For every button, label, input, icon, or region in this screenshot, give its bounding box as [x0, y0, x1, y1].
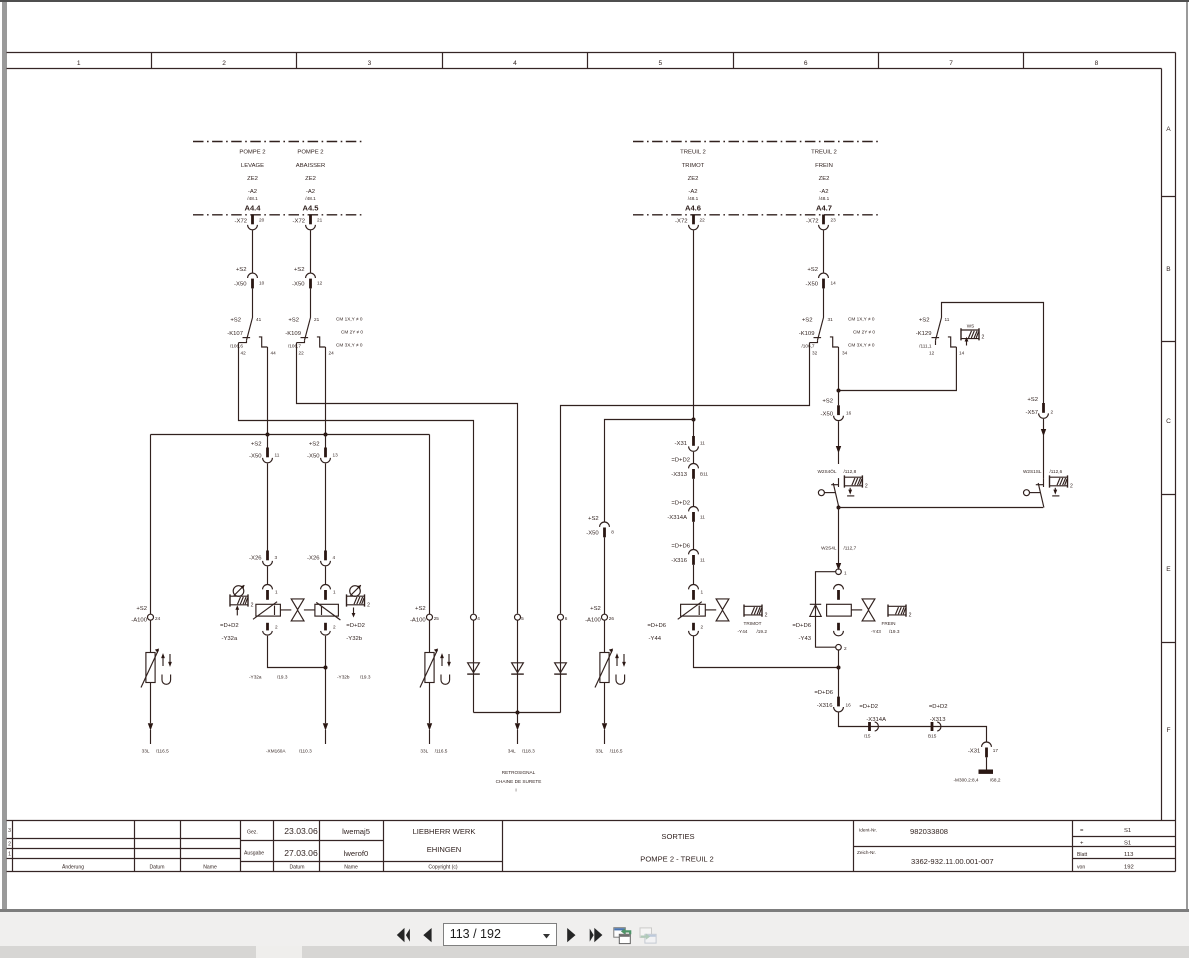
svg-text:33L: 33L: [595, 749, 603, 754]
svg-text:-A100: -A100: [585, 618, 601, 624]
svg-text:-X72: -X72: [806, 219, 818, 225]
svg-text:6: 6: [565, 616, 568, 621]
svg-text:=D+D2: =D+D2: [671, 458, 690, 464]
diode across Y43: [810, 572, 836, 648]
valve Y44 pin 2 connector: [689, 623, 704, 636]
manual override Y32b: [347, 585, 371, 617]
arrow W2S4L: [836, 563, 841, 570]
supply bus left: [151, 434, 430, 436]
svg-text:5: 5: [658, 60, 662, 67]
svg-text:TREUIL 2: TREUIL 2: [680, 150, 706, 156]
svg-text:TRIMOT: TRIMOT: [682, 163, 705, 169]
wire K107-42 to diode1: [239, 343, 474, 614]
svg-text:2: 2: [844, 646, 847, 651]
wire X26-4 to Y32b: [325, 566, 327, 584]
connector X26 pin 3: [249, 551, 277, 566]
valve Y43 pin 2 connector: [834, 623, 844, 636]
svg-text:-A100: -A100: [410, 618, 426, 624]
connector X72 pin 20: [235, 215, 265, 230]
connector X72 pin 21: [293, 215, 323, 230]
coil W2S4OL: [844, 475, 868, 495]
wire X50-10 to K107: [252, 288, 254, 317]
junction X50-16 branch: [837, 389, 841, 393]
wire X314A to X316: [693, 522, 695, 549]
svg-text:Änderung: Änderung: [62, 864, 84, 871]
svg-text:/19.2: /19.2: [757, 629, 768, 634]
svg-text:12: 12: [929, 351, 935, 356]
svg-text:-X314A: -X314A: [667, 515, 687, 521]
wire A4.6 node down: [693, 420, 695, 437]
svg-text:-K109: -K109: [799, 331, 815, 337]
header text column A4.7: [811, 150, 837, 213]
svg-text:A4.5: A4.5: [302, 204, 319, 213]
valve Y32b pin 2 connector: [321, 623, 336, 635]
interface dash-dot line lower right: [633, 214, 881, 216]
svg-text:-X26: -X26: [249, 556, 262, 562]
junction W2S4OL out: [837, 506, 841, 510]
wire X31-17 to ground: [986, 757, 988, 769]
relay contact K109b: [799, 317, 848, 356]
next page button: [567, 928, 575, 942]
svg-text:/19.3: /19.3: [889, 629, 900, 634]
connector X50 pin 14: [806, 267, 837, 288]
svg-text:+S2: +S2: [822, 399, 833, 405]
svg-text:Name: Name: [344, 865, 358, 871]
svg-text:31: 31: [828, 317, 834, 322]
svg-text:982033808: 982033808: [910, 827, 948, 836]
svg-text:ABAISSER: ABAISSER: [296, 163, 325, 169]
svg-text:A4.6: A4.6: [685, 204, 701, 213]
column numbers 1-8: [77, 60, 1099, 67]
wire Y32a-2 to XM160A node: [268, 636, 326, 668]
svg-text:1: 1: [8, 852, 11, 858]
sensor A100 pin 24: [131, 606, 172, 754]
wire K129 top feed: [942, 303, 1044, 404]
svg-text:-Y43: -Y43: [871, 629, 881, 634]
junction XM160A: [324, 666, 328, 670]
middle section row lines: [241, 841, 503, 862]
valve Y32b pin 1 connector: [321, 585, 336, 600]
svg-text:-X72: -X72: [235, 219, 247, 225]
svg-text:-K129: -K129: [916, 331, 932, 337]
label 34L /118.3: [508, 749, 535, 754]
label -XM160A /110.3: [266, 749, 312, 754]
svg-text:+S2: +S2: [136, 606, 147, 612]
svg-text:/106,6: /106,6: [230, 344, 243, 349]
svg-text:-A2: -A2: [306, 189, 315, 195]
svg-text:16: 16: [846, 703, 852, 708]
valve Y32a body: [253, 602, 280, 620]
svg-text:ZE2: ZE2: [819, 176, 830, 182]
svg-text:14: 14: [959, 351, 965, 356]
title block bottom border: [7, 871, 1176, 873]
svg-text:CM 2Y ≠ 0: CM 2Y ≠ 0: [341, 330, 363, 335]
svg-text:-X72: -X72: [293, 219, 305, 225]
svg-text:lwerof0: lwerof0: [344, 849, 368, 858]
svg-text:/48.1: /48.1: [305, 196, 316, 201]
hourglass valve Y44: [705, 599, 729, 621]
svg-text:3: 3: [368, 60, 372, 67]
svg-text:FREIN: FREIN: [881, 621, 895, 626]
svg-text:POMPE 2: POMPE 2: [239, 150, 265, 156]
hourglass valve Y43: [851, 599, 875, 621]
svg-text:/48.1: /48.1: [688, 196, 699, 201]
wire K107-44 down: [267, 347, 269, 435]
svg-text:14: 14: [831, 281, 837, 286]
svg-text:2: 2: [367, 603, 370, 609]
svg-text:+S2: +S2: [415, 606, 426, 612]
svg-text:/68,2: /68,2: [990, 778, 1001, 783]
svg-text:-X50: -X50: [821, 412, 834, 418]
svg-text:-X72: -X72: [675, 219, 687, 225]
svg-text:32: 32: [812, 351, 818, 356]
svg-text:23: 23: [831, 218, 837, 223]
svg-text:-X316: -X316: [817, 703, 833, 709]
svg-text:-K109: -K109: [285, 331, 301, 337]
node circle 2 below Y43: [836, 644, 847, 651]
column strip dividers: [152, 53, 1024, 69]
revision numbers: [8, 828, 11, 858]
svg-text:+S2: +S2: [802, 318, 813, 324]
svg-text:lwemaj5: lwemaj5: [342, 827, 370, 836]
header text column A4.6: [680, 150, 706, 213]
svg-text:-X31: -X31: [675, 441, 687, 447]
svg-text:WS: WS: [967, 324, 975, 329]
svg-text:7: 7: [949, 60, 953, 67]
svg-text:8: 8: [1095, 60, 1099, 67]
svg-text:FREIN: FREIN: [815, 163, 833, 169]
label =D+D6 -Y44: [647, 623, 666, 642]
Gez / Ausgabe labels: [244, 830, 264, 857]
svg-text:34L: 34L: [508, 749, 516, 754]
svg-text:A4.4: A4.4: [244, 204, 261, 213]
svg-text:4: 4: [513, 60, 517, 67]
connector X314A pin 11: [667, 501, 705, 522]
valve Y32a pin 2 connector: [263, 623, 278, 635]
svg-text:Datum: Datum: [289, 865, 304, 871]
svg-text:11: 11: [700, 515, 705, 520]
valve Y43 body: [827, 604, 852, 616]
svg-text:ZE2: ZE2: [247, 176, 258, 182]
junction diode bus: [516, 711, 520, 715]
svg-text:-X50: -X50: [586, 531, 599, 537]
relay contact K109a: [285, 317, 334, 356]
svg-text:/15: /15: [864, 734, 871, 739]
svg-text:21: 21: [314, 317, 320, 322]
wire X50-14 to K109b: [823, 288, 825, 317]
frame bottom border / title block top: [7, 820, 1176, 822]
svg-text:/19.3: /19.3: [277, 675, 288, 680]
svg-text:24: 24: [155, 616, 161, 621]
diode column 2 plug pin 5: [511, 614, 524, 712]
svg-text:-X316: -X316: [671, 558, 687, 564]
svg-text:=D+D6: =D+D6: [647, 623, 666, 629]
svg-text:113: 113: [1124, 852, 1134, 858]
svg-text:-X50: -X50: [292, 282, 305, 288]
svg-text:33L: 33L: [142, 749, 150, 754]
svg-text:26: 26: [609, 616, 615, 621]
svg-text:CM 1X,Y ≠ 0: CM 1X,Y ≠ 0: [336, 317, 363, 322]
svg-text:-X314A: -X314A: [866, 717, 886, 723]
coil FREIN: [871, 605, 912, 635]
svg-text:SORTIES: SORTIES: [661, 832, 694, 841]
svg-text:A4.7: A4.7: [816, 204, 832, 213]
svg-text:/111,1: /111,1: [919, 344, 932, 349]
wire X313 to X314A: [693, 479, 695, 506]
svg-text:/48.1: /48.1: [819, 196, 830, 201]
label retrosignal: [496, 770, 542, 793]
svg-text:TRIMOT: TRIMOT: [744, 621, 762, 626]
arrow XM160A output: [323, 723, 328, 744]
svg-text:-X26: -X26: [307, 556, 320, 562]
svg-text:+S2: +S2: [230, 318, 241, 324]
wire A4.5 X72 to X50: [310, 230, 312, 272]
connector X316 pin 11: [671, 544, 705, 565]
svg-text:CM 3X,Y ≠ 0: CM 3X,Y ≠ 0: [336, 343, 363, 348]
svg-text:42: 42: [241, 351, 247, 356]
svg-text:Name: Name: [203, 865, 217, 871]
svg-text:2: 2: [982, 335, 985, 341]
connector X31 pin 17: [968, 742, 999, 757]
wire A4.7 X72 to X50: [823, 230, 825, 272]
frame right inner border: [1161, 69, 1163, 821]
svg-text:/48.1: /48.1: [247, 196, 258, 201]
svg-text:-Y32a: -Y32a: [222, 636, 238, 642]
coil TRIMOT: [738, 605, 768, 635]
diode collector bus: [474, 712, 561, 714]
svg-text:/116.5: /116.5: [435, 749, 448, 754]
svg-text:33L: 33L: [420, 749, 428, 754]
svg-text:B: B: [1166, 266, 1171, 273]
label =D+D2 -Y32b: [346, 623, 365, 642]
svg-text:1: 1: [844, 571, 847, 576]
names: [342, 827, 370, 858]
svg-text:22: 22: [700, 218, 706, 223]
svg-text:-X50: -X50: [806, 282, 819, 288]
wire X50-8 to A100-26: [604, 537, 606, 614]
svg-text:von: von: [1077, 865, 1085, 871]
svg-text:3362-932.11.00.001-007: 3362-932.11.00.001-007: [911, 857, 994, 866]
CM note right pair: [848, 317, 875, 348]
svg-text:3: 3: [275, 555, 278, 560]
CM note left pair: [336, 317, 363, 348]
wire X31-11 to X313: [693, 452, 695, 463]
prev view icon: [614, 928, 631, 944]
label -Y32a /19.3: [249, 675, 288, 680]
connector X72 pin 23: [806, 215, 836, 230]
wire W2S4OL to W2S1SL: [839, 507, 1044, 509]
valve Y44 body: [678, 602, 706, 620]
svg-text:/110.3: /110.3: [299, 749, 312, 754]
svg-text:1: 1: [701, 590, 704, 595]
svg-text:11: 11: [700, 558, 705, 563]
svg-text:=: =: [1080, 828, 1084, 834]
svg-text:11: 11: [700, 441, 705, 446]
diode column 3 plug pin 6: [554, 614, 568, 712]
label =D+D6 -Y43: [792, 623, 811, 642]
svg-text:-X50: -X50: [234, 282, 247, 288]
row letter dividers: [1162, 197, 1176, 643]
wire branch to X50-8: [605, 420, 694, 522]
svg-text:2: 2: [865, 484, 868, 490]
svg-text:11: 11: [945, 317, 950, 322]
connector X50 pin 10: [234, 267, 265, 288]
svg-text:4: 4: [333, 555, 336, 560]
svg-text:17: 17: [993, 748, 999, 753]
svg-text:Ident-Nr.: Ident-Nr.: [859, 828, 877, 833]
svg-text:2: 2: [909, 613, 912, 619]
wire bus to A100-24: [150, 435, 152, 615]
svg-text:E: E: [1166, 566, 1171, 573]
svg-text:LEVAGE: LEVAGE: [241, 163, 264, 169]
wire X50-13 to X26-4: [325, 464, 327, 551]
svg-text:=D+D2: =D+D2: [929, 704, 948, 710]
svg-text:Copyright (c): Copyright (c): [428, 865, 457, 871]
LIEBHERR WERK EHINGEN: [413, 827, 476, 854]
svg-text:1: 1: [333, 590, 336, 595]
wire X57 down with arrow: [1041, 419, 1046, 478]
svg-text:6: 6: [804, 60, 808, 67]
last page button: [590, 928, 603, 942]
valve Y32b body: [315, 602, 341, 620]
svg-text:192: 192: [1124, 865, 1134, 871]
svg-text:/118.3: /118.3: [522, 749, 535, 754]
svg-text:-A2: -A2: [688, 189, 697, 195]
wire Y43 node to X316-16: [838, 650, 840, 697]
svg-text:+S2: +S2: [251, 442, 262, 448]
svg-text:+S2: +S2: [590, 606, 601, 612]
SORTIES POMPE 2 - TREUIL 2: [640, 832, 713, 864]
sheet cells: [1077, 828, 1134, 871]
svg-text:=D+D6: =D+D6: [671, 544, 690, 550]
label =D+D2 -Y32a: [220, 623, 239, 642]
svg-text:2: 2: [1070, 484, 1073, 490]
svg-text:-X31: -X31: [968, 749, 980, 755]
connector X26 pin 4: [307, 551, 335, 566]
svg-text:W2S4ÖL: W2S4ÖL: [817, 468, 836, 474]
ground return wire: [839, 713, 987, 742]
wire X26-3 to Y32a: [267, 566, 269, 584]
label W2S1SL /112,6: [1023, 469, 1063, 474]
wire K109b-34 down: [838, 347, 840, 391]
diode column 1 plug pin 4: [467, 614, 480, 712]
relay contact K107: [227, 317, 276, 356]
svg-text:-A100: -A100: [131, 618, 147, 624]
svg-text:2: 2: [275, 625, 278, 630]
coil W2S1SL: [1050, 475, 1074, 495]
label W2S4OL /112,8: [817, 468, 856, 474]
svg-text:F: F: [1166, 727, 1170, 734]
svg-text:Gez.: Gez.: [247, 830, 258, 836]
previous page button: [423, 928, 431, 942]
header text column A4.4: [239, 150, 265, 213]
svg-text:Blatt: Blatt: [1077, 852, 1088, 858]
wire bus to A100-25: [429, 435, 431, 615]
frame column strip bottom line: [7, 68, 1162, 70]
svg-text:41: 41: [256, 317, 262, 322]
svg-text:=D+D2: =D+D2: [346, 623, 365, 629]
wire W2S4L segment: [838, 508, 840, 564]
wire A4.4 X72 to X50: [252, 230, 254, 272]
svg-text:EHINGEN: EHINGEN: [427, 845, 462, 854]
connector X31 pin 11: [675, 436, 706, 451]
junction bus X50-13: [324, 433, 328, 437]
svg-text:23.03.06: 23.03.06: [284, 826, 318, 836]
footer labels: [62, 864, 458, 871]
connector X316 pin 16: [814, 690, 851, 712]
svg-text:/116.5: /116.5: [610, 749, 623, 754]
svg-text:CM 3X,Y ≠ 0: CM 3X,Y ≠ 0: [848, 343, 875, 348]
dates: [284, 826, 318, 858]
valve Y44 pin 1 connector: [689, 585, 704, 600]
svg-text:1: 1: [77, 60, 81, 67]
svg-text:=D+D6: =D+D6: [814, 690, 833, 696]
svg-text:+S2: +S2: [309, 442, 320, 448]
svg-text:CHAINE DE SURETE: CHAINE DE SURETE: [496, 779, 542, 784]
svg-text:/106,7: /106,7: [288, 344, 301, 349]
svg-text:24: 24: [329, 351, 335, 356]
svg-text:TREUIL 2: TREUIL 2: [811, 150, 837, 156]
svg-text:-A2: -A2: [248, 189, 257, 195]
connector X57 pin 2: [1026, 397, 1054, 418]
wire X50-16 down with arrow: [836, 421, 841, 464]
svg-text:/116.5: /116.5: [156, 749, 169, 754]
svg-text:-Y43: -Y43: [799, 636, 812, 642]
svg-text:A: A: [1166, 126, 1171, 133]
svg-text:RETROSIGNAL: RETROSIGNAL: [502, 770, 536, 775]
svg-text:-X57: -X57: [1026, 410, 1038, 416]
svg-text:44: 44: [271, 351, 277, 356]
svg-text:-X313: -X313: [671, 472, 687, 478]
svg-text:+S2: +S2: [288, 318, 299, 324]
valve Y43 pin 1 connector: [834, 585, 844, 600]
svg-text:Zeich-Nr.: Zeich-Nr.: [857, 850, 876, 855]
svg-text:12: 12: [317, 281, 323, 286]
svg-text:W2S1SL: W2S1SL: [1023, 469, 1042, 474]
svg-text:S1: S1: [1124, 828, 1131, 834]
svg-text:/112,7: /112,7: [844, 546, 857, 551]
svg-text:+S2: +S2: [919, 318, 930, 324]
junction Y43-Y44: [837, 666, 841, 670]
title block verticals: [13, 821, 1073, 872]
svg-text:=D+D2: =D+D2: [220, 623, 239, 629]
pressure switch W2S4OL: [818, 478, 839, 507]
sensor A100 pin 25: [410, 606, 451, 754]
svg-text:13: 13: [333, 453, 339, 458]
label -Y32b /19.3: [337, 675, 371, 680]
svg-text:4: 4: [477, 616, 480, 621]
svg-text:=D+D2: =D+D2: [671, 501, 690, 507]
svg-text:-X313: -X313: [930, 717, 946, 723]
svg-text:-Y32b: -Y32b: [337, 675, 350, 680]
svg-text:-K107: -K107: [227, 331, 243, 337]
valve Y32a pin 1 connector: [263, 585, 278, 600]
arrow retrosignal output: [515, 713, 520, 745]
svg-text:21: 21: [317, 218, 323, 223]
svg-text:CM 1X,Y ≠ 0: CM 1X,Y ≠ 0: [848, 317, 875, 322]
svg-text:34: 34: [842, 351, 848, 356]
connector X50 pin 11: [249, 435, 280, 463]
relay contact K129: [916, 317, 965, 356]
svg-text:-Y32b: -Y32b: [346, 636, 362, 642]
connector X50 pin 8: [586, 516, 614, 537]
svg-text:25: 25: [434, 616, 440, 621]
wire K129-14 down to X50-16 branch: [839, 347, 957, 391]
svg-text:-A2: -A2: [819, 189, 828, 195]
svg-text:=D+D6: =D+D6: [792, 623, 811, 629]
svg-text:B11: B11: [700, 472, 708, 477]
junction bus X50-11: [266, 433, 270, 437]
